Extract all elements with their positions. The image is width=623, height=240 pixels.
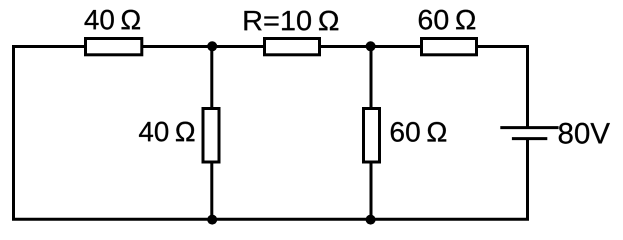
label R4 value 60Ω — [391, 122, 446, 142]
wire: right rail lower (battery - plate to bottom-right corner) — [526, 139, 529, 221]
junction node A top — [207, 41, 217, 51]
label R2 value 40Ω — [139, 122, 194, 142]
junction node B bottom — [366, 215, 376, 225]
junction node A bottom — [207, 215, 217, 225]
label R5 value 60Ω — [419, 10, 475, 30]
label R1 value 40Ω — [85, 10, 140, 30]
resistor R4 60Ω (right vertical) — [364, 109, 380, 163]
junction node B top — [366, 41, 376, 51]
resistor R2 40Ω (left vertical) — [203, 109, 219, 163]
wire: left rail — [12, 47, 15, 220]
wire: bottom rail — [12, 218, 529, 221]
resistor R3 R=10Ω (top-middle horizontal) — [265, 39, 320, 55]
battery V1 80V — [500, 128, 558, 139]
wire: right rail upper (top-right corner to battery + plate) — [526, 45, 529, 128]
wire: top rail — [12, 45, 529, 48]
resistor R5 60Ω (top-right horizontal) — [422, 39, 477, 55]
wire: branch node B vertical (through R4) — [370, 47, 373, 220]
resistor R1 40Ω (top-left horizontal) — [86, 39, 142, 55]
label battery value 80V — [559, 123, 610, 144]
label R3 value R=10Ω — [244, 11, 338, 31]
wire: branch node A vertical (through R2) — [210, 47, 213, 220]
